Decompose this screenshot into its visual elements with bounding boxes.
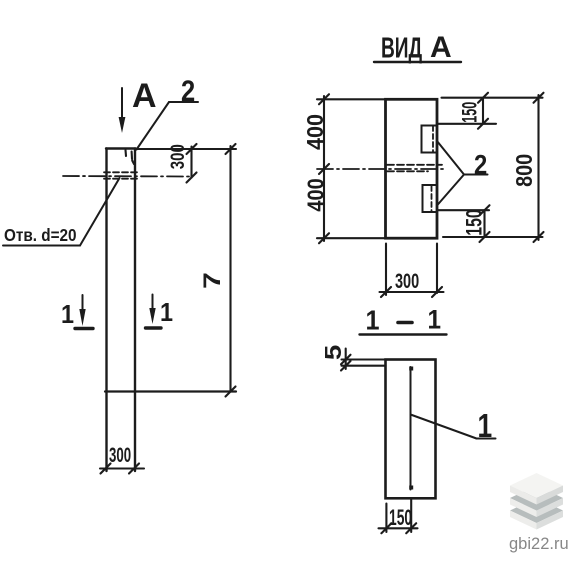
title ВИД А bbox=[374, 31, 461, 65]
right dimension line 800 bbox=[442, 93, 544, 242]
upper notch / embedded plate 2 bbox=[422, 126, 438, 153]
svg-text:400: 400 bbox=[302, 114, 328, 150]
post front view outline bbox=[106, 149, 136, 472]
svg-text:7: 7 bbox=[198, 272, 225, 289]
post bottom edge + extension line for length dim bbox=[105, 390, 236, 392]
svg-text:1: 1 bbox=[428, 305, 442, 334]
section outline bbox=[386, 360, 436, 499]
label 1 with leader (section) bbox=[411, 408, 496, 444]
svg-text:150: 150 bbox=[389, 505, 412, 530]
bottom dimension 300 (view A) bbox=[380, 244, 444, 298]
view direction arrow A bbox=[119, 88, 126, 133]
hidden hole line top (view A) bbox=[387, 164, 442, 166]
section mark 1 (right) bbox=[146, 295, 174, 329]
svg-text:150: 150 bbox=[457, 102, 481, 123]
svg-text:1: 1 bbox=[160, 299, 173, 327]
svg-text:А: А bbox=[430, 31, 452, 64]
svg-text:A: A bbox=[132, 77, 157, 115]
embedded plate edge (section) bbox=[409, 367, 413, 490]
embedded plate hidden dashes (top right corner) bbox=[126, 150, 135, 164]
left dimension line 400/400 bbox=[317, 94, 386, 243]
bottom dimension 150 (section) bbox=[379, 498, 418, 533]
hole callout label Отв. d=20 bbox=[3, 178, 120, 246]
top extension line for length dim bbox=[136, 148, 237, 150]
gbi22.ru logo: stacked slabs bbox=[510, 473, 563, 530]
dimension line 7 (length) bbox=[226, 144, 236, 397]
svg-text:300: 300 bbox=[395, 269, 419, 292]
section mark 1 (left) bbox=[61, 295, 93, 329]
svg-text:Отв. d=20: Отв. d=20 bbox=[4, 225, 77, 245]
plate outline (view A) bbox=[386, 99, 438, 238]
bottom slab bbox=[510, 498, 563, 530]
label 2 with double leader (view A) bbox=[437, 142, 487, 206]
hole hidden line top bbox=[104, 171, 137, 173]
dimension 300 (top, to hole axis) bbox=[187, 144, 197, 183]
svg-text:5: 5 bbox=[321, 345, 346, 360]
dimension 300 (post width, bottom of front view) bbox=[100, 464, 144, 474]
hidden hole line bottom (view A) bbox=[387, 170, 428, 172]
svg-text:1: 1 bbox=[478, 408, 493, 444]
bottom dimension 150 bbox=[437, 205, 490, 242]
svg-text:150: 150 bbox=[463, 209, 487, 235]
svg-text:1: 1 bbox=[61, 301, 74, 329]
extension lines + dimension 5 bbox=[341, 349, 386, 371]
label 2 (left view, leader) bbox=[137, 74, 199, 149]
hole hidden line bottom bbox=[104, 178, 137, 180]
centerline of hole (left view) bbox=[63, 175, 191, 178]
centerline (view A) bbox=[317, 168, 446, 170]
svg-text:2: 2 bbox=[474, 148, 487, 180]
middle slab bbox=[510, 486, 563, 518]
svg-text:1: 1 bbox=[366, 304, 380, 336]
top dimension 150 bbox=[437, 93, 496, 129]
svg-text:300: 300 bbox=[109, 443, 131, 467]
svg-text:400: 400 bbox=[302, 178, 329, 211]
lower notch / embedded plate 2 bbox=[423, 185, 438, 212]
svg-text:800: 800 bbox=[512, 154, 538, 187]
title 1 - 1 bbox=[360, 304, 447, 336]
svg-text:gbi22.ru: gbi22.ru bbox=[509, 535, 569, 553]
top slab bbox=[510, 473, 563, 505]
svg-text:300: 300 bbox=[167, 144, 188, 169]
svg-text:ВИД: ВИД bbox=[381, 33, 423, 65]
